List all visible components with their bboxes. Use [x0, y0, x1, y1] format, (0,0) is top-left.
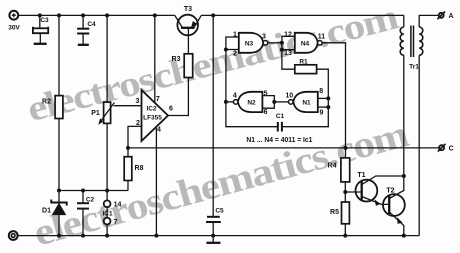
- svg-text:R8: R8: [135, 165, 144, 172]
- svg-text:14: 14: [114, 202, 122, 209]
- svg-text:9: 9: [320, 110, 324, 117]
- svg-text:IC2: IC2: [146, 106, 157, 113]
- svg-text:C1: C1: [276, 113, 285, 120]
- svg-text:C3: C3: [40, 17, 49, 24]
- svg-text:1: 1: [233, 32, 237, 39]
- svg-text:T2: T2: [386, 188, 394, 195]
- svg-text:N2: N2: [247, 100, 256, 107]
- svg-text:5: 5: [264, 91, 268, 98]
- svg-text:C: C: [449, 146, 454, 153]
- svg-text:4: 4: [233, 93, 237, 100]
- svg-text:N1: N1: [302, 100, 311, 107]
- svg-text:P1: P1: [91, 110, 100, 117]
- svg-text:8: 8: [319, 88, 323, 95]
- svg-text:A: A: [448, 13, 453, 20]
- svg-text:30V: 30V: [8, 25, 20, 32]
- svg-text:12: 12: [284, 32, 292, 39]
- svg-text:C5: C5: [215, 208, 224, 215]
- svg-text:7: 7: [114, 219, 118, 226]
- svg-text:6: 6: [264, 109, 268, 116]
- svg-text:Tr1: Tr1: [409, 64, 419, 71]
- svg-text:D1: D1: [42, 208, 51, 215]
- svg-text:3: 3: [262, 34, 266, 41]
- svg-text:R1: R1: [299, 59, 308, 66]
- svg-text:7: 7: [156, 96, 160, 103]
- svg-text:R2: R2: [42, 99, 51, 106]
- svg-text:2: 2: [136, 120, 140, 127]
- svg-text:6: 6: [169, 106, 173, 113]
- svg-text:T1: T1: [357, 172, 365, 179]
- svg-text:13: 13: [284, 50, 292, 57]
- svg-text:2: 2: [233, 51, 237, 58]
- svg-text:R4: R4: [328, 163, 337, 170]
- svg-text:C2: C2: [86, 197, 95, 204]
- svg-text:IC1: IC1: [102, 211, 113, 218]
- svg-text:N4: N4: [301, 41, 310, 48]
- svg-text:R5: R5: [330, 209, 339, 216]
- svg-text:LF355: LF355: [143, 115, 162, 122]
- svg-text:T3: T3: [184, 6, 192, 13]
- svg-text:R3: R3: [172, 56, 181, 63]
- svg-text:N3: N3: [245, 41, 254, 48]
- svg-text:10: 10: [285, 93, 293, 100]
- svg-text:N1 ... N4 = 4011 = Ic1: N1 ... N4 = 4011 = Ic1: [246, 137, 312, 144]
- svg-text:11: 11: [318, 34, 326, 41]
- svg-text:4: 4: [157, 127, 161, 134]
- svg-text:C4: C4: [87, 21, 96, 28]
- svg-text:3: 3: [136, 98, 140, 105]
